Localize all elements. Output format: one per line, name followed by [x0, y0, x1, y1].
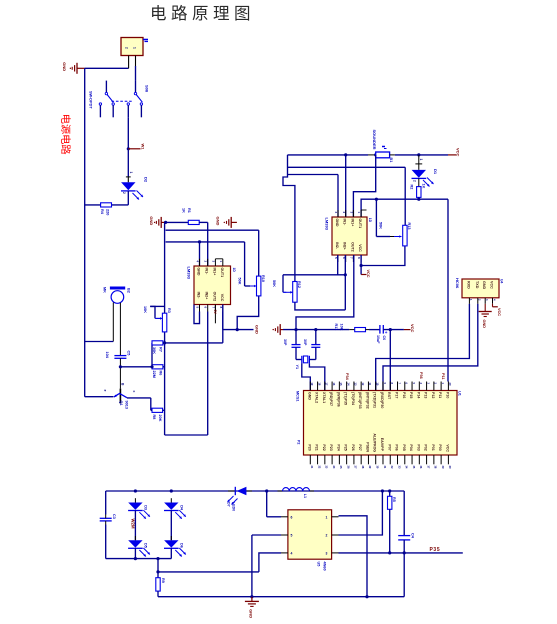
connector J1 [121, 38, 148, 56]
potentiometer R12 50K [272, 280, 301, 302]
power VCC top-right [448, 148, 461, 157]
power VCC HC06 [493, 304, 501, 316]
svg-text:(RD)P37: (RD)P37 [329, 392, 333, 406]
svg-text:P06: P06 [395, 444, 399, 450]
svg-text:1: 1 [133, 47, 137, 49]
LED D4 [164, 498, 186, 519]
svg-text:RXD: RXD [466, 281, 470, 289]
svg-text:P00: P00 [438, 444, 442, 450]
svg-text:W1: W1 [141, 144, 146, 151]
svg-text:电源电路: 电源电路 [59, 114, 72, 155]
svg-text:R11: R11 [334, 324, 338, 331]
svg-text:R12: R12 [297, 281, 301, 288]
wire H-left bus [283, 155, 295, 282]
wire C4 bottom [403, 540, 405, 597]
LED D1 [412, 155, 439, 187]
svg-text:C3: C3 [112, 514, 116, 519]
wire R4 row [85, 204, 129, 206]
resistor R1 1K [182, 208, 200, 225]
svg-text:1K: 1K [182, 208, 186, 213]
svg-text:20K: 20K [158, 415, 162, 422]
wire LED col1 bot [134, 548, 137, 560]
svg-text:P12: P12 [431, 392, 435, 398]
net label W2 [131, 519, 136, 529]
svg-text:IN1-: IN1- [343, 219, 347, 227]
svg-text:GND: GND [149, 216, 154, 225]
wire R1 to pin3 [199, 222, 208, 266]
svg-text:GND: GND [216, 217, 221, 226]
ground GND mid rail [255, 324, 284, 335]
wire opto pin4 fb [259, 553, 281, 572]
svg-text:OUT1: OUT1 [220, 268, 224, 278]
svg-text:3: 3 [326, 551, 328, 555]
wire base node [120, 366, 152, 368]
svg-text:GND: GND [255, 325, 260, 334]
wire HC06 RXD to P30 [376, 304, 470, 391]
node IC1 top rail [164, 221, 167, 224]
wire buzzer to VCC [390, 153, 448, 156]
wire 20K to rail [163, 409, 165, 411]
net label P11 [441, 373, 445, 380]
wire to R1 [166, 221, 189, 223]
svg-text:LM393: LM393 [187, 267, 192, 280]
capacitor C4 [398, 533, 414, 540]
wire gnd rail mid [283, 328, 349, 331]
crystal Y1 [295, 347, 316, 369]
svg-text:P05: P05 [402, 444, 406, 450]
capacitor C2 30P [303, 339, 321, 347]
svg-text:VCC: VCC [366, 270, 370, 278]
svg-text:HC06: HC06 [455, 278, 460, 289]
svg-text:RST: RST [387, 392, 391, 400]
svg-text:PSEN: PSEN [365, 442, 369, 452]
svg-text:1: 1 [129, 172, 133, 174]
svg-text:U5: U5 [317, 562, 321, 567]
svg-text:1D: 1D [232, 268, 236, 273]
wire pot1-top feed [166, 230, 259, 276]
wire H6 pin6 bus [361, 198, 448, 217]
svg-text:D3: D3 [144, 505, 148, 510]
title text 电路原理图 [150, 4, 255, 23]
wire wiper bus [283, 275, 345, 293]
svg-text:VCC: VCC [490, 281, 494, 289]
MCU U1 AT89C51 [296, 382, 462, 469]
svg-text:EA/VPP: EA/VPP [380, 438, 384, 452]
svg-text:220: 220 [106, 209, 110, 215]
svg-text:(T1)P35: (T1)P35 [344, 392, 348, 405]
resistor R8 20K [151, 408, 163, 422]
svg-text:(INT0)P32: (INT0)P32 [365, 392, 369, 409]
wire IC1 pin6 drop [207, 312, 209, 436]
svg-text:50K: 50K [379, 222, 383, 229]
svg-text:IN2+: IN2+ [205, 292, 209, 300]
wire mic left [85, 303, 114, 342]
svg-text:104: 104 [105, 352, 109, 359]
wire IC1 pin8 to gnd rail [223, 305, 254, 330]
svg-text:P03: P03 [416, 444, 420, 450]
svg-text:10K: 10K [340, 324, 344, 331]
wire IC2 pin5b [337, 255, 339, 275]
wire bottom gnd bus [158, 591, 404, 598]
potentiometer R13 50K [376, 222, 410, 246]
svg-text:(T0)P34: (T0)P34 [351, 392, 355, 405]
net label P36 [419, 372, 423, 379]
svg-text:P25: P25 [344, 444, 348, 450]
wire 30K left leg [150, 343, 153, 369]
svg-text:10uF: 10uF [376, 335, 380, 344]
svg-text:D7: D7 [227, 502, 231, 507]
svg-text:P02: P02 [424, 444, 428, 450]
svg-text:R6: R6 [158, 371, 162, 376]
svg-text:P01: P01 [431, 444, 435, 450]
wire pot3 bottom route [361, 246, 405, 266]
svg-text:R3: R3 [167, 308, 171, 313]
svg-text:Y1: Y1 [295, 365, 299, 370]
svg-text:2: 2 [413, 180, 417, 182]
capacitor C5 104 [105, 351, 131, 359]
svg-text:P14: P14 [416, 392, 420, 398]
svg-text:B1: B1 [389, 158, 393, 163]
svg-text:1: 1 [326, 515, 328, 519]
svg-text:D2: D2 [144, 177, 149, 183]
svg-text:LED0: LED0 [232, 502, 236, 511]
svg-text:1D: 1D [368, 218, 372, 223]
svg-text:10K: 10K [143, 306, 147, 313]
wire LED col2 mid [170, 511, 172, 541]
wire opto pin6 feed [267, 491, 281, 517]
svg-text:P11: P11 [438, 392, 442, 398]
wire R5 bottom [389, 509, 391, 553]
svg-text:OUT2: OUT2 [350, 242, 354, 252]
optocoupler U5 4N60 [281, 510, 339, 571]
svg-text:P34: P34 [345, 373, 349, 381]
svg-text:1: 1 [419, 159, 423, 161]
ground GND IC1-left [149, 216, 165, 228]
svg-text:D1: D1 [433, 169, 438, 175]
svg-text:P23: P23 [329, 444, 333, 450]
ground GND IC1-right [216, 217, 237, 228]
svg-text:OUT2: OUT2 [212, 292, 216, 302]
switch S8 [89, 81, 150, 118]
svg-text:MCS1: MCS1 [296, 391, 300, 402]
wire IC1 pin7 stub [213, 305, 217, 324]
node W1 [127, 144, 146, 151]
wire pin7b net [296, 255, 354, 330]
wire pin6b drop [344, 255, 347, 310]
svg-text:SW-DPDT: SW-DPDT [89, 91, 93, 109]
LED D6 [164, 536, 186, 557]
svg-text:C5: C5 [127, 351, 131, 356]
wire left drop [105, 491, 107, 515]
svg-text:(INT1)P33: (INT1)P33 [358, 392, 362, 409]
svg-text:OUT1: OUT1 [358, 219, 362, 229]
svg-text:IN2-: IN2- [335, 242, 339, 250]
svg-text:XTAL1: XTAL1 [322, 392, 326, 403]
svg-text:GND: GND [482, 320, 486, 329]
net label P35 [430, 547, 441, 553]
resistor R6 22M [152, 365, 163, 378]
svg-text:R13: R13 [407, 223, 411, 230]
svg-text:P36: P36 [419, 372, 423, 379]
wire mic right [119, 303, 121, 356]
svg-text:9013: 9013 [124, 401, 128, 409]
wire cap1 top [295, 330, 297, 345]
svg-text:GND: GND [307, 392, 311, 400]
svg-text:30P: 30P [283, 339, 287, 346]
ground GND top-left [62, 62, 85, 74]
wire audio out [163, 312, 223, 345]
svg-text:S08: S08 [145, 85, 150, 93]
LED D2 [121, 172, 149, 200]
svg-text:R5: R5 [392, 497, 396, 502]
wire H5 pin5 [353, 155, 375, 217]
wire opto pin2 up [339, 491, 383, 535]
svg-text:2: 2 [122, 192, 126, 194]
wire xtal to pin1 [302, 363, 311, 390]
resistor R9 [156, 578, 165, 591]
svg-text:30K: 30K [152, 347, 156, 354]
svg-text:VCC: VCC [220, 294, 224, 302]
svg-text:IN1+: IN1+ [212, 268, 216, 276]
ground GND HC06 [479, 304, 492, 328]
svg-text:P17: P17 [395, 392, 399, 398]
resistor R7 30K [152, 341, 163, 354]
wire to C6 [369, 329, 380, 331]
svg-text:e: e [103, 390, 107, 392]
svg-text:IN1+: IN1+ [350, 219, 354, 227]
microphone MK2 [103, 287, 131, 304]
wire H4 to IC2 pin1 [288, 175, 339, 218]
wire LED col2 bot [170, 548, 172, 558]
svg-text:GND: GND [197, 268, 201, 276]
wire collector [127, 398, 151, 410]
svg-text:4: 4 [291, 551, 293, 555]
wire H2 to pot3-top [288, 167, 406, 225]
potentiometer R3 10K [143, 306, 171, 332]
svg-text:22M: 22M [152, 371, 156, 378]
svg-text:P20: P20 [307, 444, 311, 450]
svg-text:ALE/PROG: ALE/PROG [373, 433, 377, 452]
svg-text:P04: P04 [409, 444, 413, 450]
wire HC06 TXD to P31 [383, 304, 478, 391]
svg-text:SOUNDER: SOUNDER [372, 130, 377, 150]
resistor R5 [388, 496, 397, 509]
wire cap2 top [315, 330, 317, 345]
svg-text:1K: 1K [422, 184, 426, 189]
svg-text:R1: R1 [187, 208, 191, 213]
net label P34 [345, 373, 349, 381]
wire D2 cathode [127, 191, 129, 205]
svg-text:R8: R8 [152, 415, 156, 420]
svg-text:GND: GND [249, 609, 254, 618]
wire sense drop [156, 557, 159, 578]
svg-text:R7: R7 [158, 347, 162, 352]
svg-text:P35: P35 [430, 547, 441, 553]
op-amp U2 LM393 [187, 259, 236, 312]
svg-text:P10: P10 [445, 392, 449, 398]
diode D7 [227, 487, 252, 511]
svg-text:电路原理图: 电路原理图 [150, 4, 255, 23]
svg-text:C6: C6 [382, 336, 386, 341]
svg-text:GND: GND [335, 219, 339, 227]
svg-text:30P: 30P [303, 339, 307, 346]
LED D5 [128, 536, 150, 557]
power VCC gnd-rail [404, 324, 415, 333]
svg-text:P2: P2 [297, 440, 301, 444]
transistor Q1 9013 [103, 383, 136, 409]
svg-text:2: 2 [326, 534, 328, 538]
wire J1 pin1 lead [135, 56, 137, 81]
svg-text:50K: 50K [272, 280, 276, 287]
svg-text:R10: R10 [261, 275, 265, 282]
inductor L1 [278, 488, 315, 498]
wire opto pin1 down [339, 516, 368, 597]
svg-text:P07: P07 [387, 444, 391, 450]
resistor R4 220 [100, 203, 112, 216]
wire mid rail [165, 222, 208, 435]
svg-text:VCC: VCC [445, 444, 449, 452]
wire LED col1 mid [134, 511, 136, 541]
wire C4 branch [403, 491, 405, 536]
svg-text:R2: R2 [409, 185, 413, 190]
svg-text:LM393: LM393 [325, 218, 330, 231]
capacitor C6 10uF [376, 325, 388, 344]
svg-text:TXD: TXD [475, 281, 479, 289]
svg-text:U1: U1 [457, 391, 461, 396]
resistor R2 1K [409, 184, 425, 198]
svg-text:4N60: 4N60 [323, 562, 327, 571]
wire D1 to R2 [418, 178, 420, 186]
svg-text:c: c [132, 391, 136, 393]
wire pin2 net [166, 240, 245, 286]
svg-text:6: 6 [291, 515, 293, 519]
wire fb bus [156, 570, 259, 573]
svg-text:VCC: VCC [358, 244, 362, 252]
svg-text:VCC: VCC [410, 324, 415, 333]
svg-text:P24: P24 [336, 444, 340, 450]
svg-text:P26: P26 [351, 444, 355, 450]
capacitor C3 [100, 514, 116, 525]
wire 22M to rail [163, 366, 165, 368]
op-amp U3 LM393 [325, 210, 372, 262]
wire IC1 pin5 U-loop [194, 305, 200, 324]
svg-text:VCC: VCC [497, 308, 501, 316]
wire pot1 bottom route [236, 296, 259, 331]
svg-text:(WR)P36: (WR)P36 [336, 392, 340, 407]
wire opto pin5 to gnd [252, 535, 281, 597]
svg-text:IN2+: IN2+ [343, 242, 347, 250]
svg-text:U4: U4 [499, 279, 503, 283]
label 电源电路 (red) [59, 114, 72, 155]
wire R5 top [389, 491, 391, 496]
wire emitter [85, 396, 114, 398]
wire opto pin3 P35 [339, 551, 463, 554]
svg-text:(RXD)P30: (RXD)P30 [380, 392, 384, 408]
wire left drop lower [106, 525, 172, 559]
wire RST drop [389, 330, 391, 391]
svg-text:5: 5 [291, 534, 293, 538]
wire right rail [447, 199, 449, 381]
wire pot3 wiper drop [375, 199, 377, 236]
svg-text:L1: L1 [303, 494, 307, 498]
svg-text:P22: P22 [322, 444, 326, 450]
svg-text:Q1: Q1 [119, 401, 123, 406]
ground GND bottom [245, 597, 259, 619]
svg-text:(TXD)P31: (TXD)P31 [373, 392, 377, 408]
wire IC2 pin2 up [345, 155, 347, 217]
svg-text:GND: GND [482, 281, 486, 290]
wire left rail [85, 68, 129, 396]
svg-text:D5: D5 [144, 543, 148, 548]
svg-text:IN1-: IN1- [205, 268, 209, 276]
wire switch output [127, 117, 129, 177]
potentiometer R10 50K [238, 275, 265, 296]
svg-text:+: + [385, 330, 388, 335]
capacitor C1 30P [283, 339, 300, 347]
resistor R11 10K [334, 324, 369, 332]
buzzer B1 [372, 130, 393, 163]
svg-text:P11: P11 [441, 373, 445, 380]
svg-text:50K: 50K [238, 278, 242, 285]
wire J1 pin2 lead [128, 56, 130, 69]
svg-text:P16: P16 [402, 392, 406, 398]
svg-text:P13: P13 [424, 392, 428, 398]
svg-text:VCC: VCC [456, 148, 461, 157]
wire C5 to base [119, 358, 122, 388]
svg-text:P15: P15 [409, 392, 413, 398]
wire xtal to pin3 [309, 363, 324, 390]
svg-text:GND: GND [62, 62, 67, 71]
wire pot2 bottom [295, 302, 345, 310]
svg-text:2: 2 [125, 47, 129, 49]
svg-text:MK: MK [103, 287, 107, 293]
svg-text:P21: P21 [315, 444, 319, 450]
wire R2 to H6 [418, 197, 420, 199]
wire VCC bus H1 [288, 153, 378, 156]
svg-text:IN2-: IN2- [197, 292, 201, 300]
svg-text:XTAL2: XTAL2 [315, 392, 319, 403]
svg-text:D6: D6 [180, 543, 184, 548]
svg-text:R9: R9 [161, 578, 165, 583]
wire C6 to VCC [383, 328, 404, 331]
wire bottom top bus [106, 489, 405, 492]
svg-text:3V: 3V [213, 310, 217, 315]
svg-text:P27: P27 [358, 444, 362, 450]
wire pin8b VCC [360, 255, 370, 278]
LED D3 [128, 498, 150, 519]
svg-text:B2: B2 [127, 288, 131, 293]
wireless module U4 HC06 [455, 278, 503, 304]
